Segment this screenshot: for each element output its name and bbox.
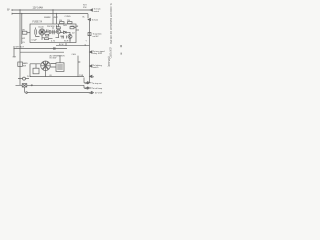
- svg-text:switch: switch: [93, 66, 99, 69]
- connector arrow A4: [90, 65, 93, 67]
- svg-text:R/W: R/W: [83, 7, 87, 9]
- wire mid bus C: [20, 51, 64, 53]
- wire right mid vertical: [78, 56, 80, 77]
- capacitor C2: [46, 30, 53, 34]
- svg-text:SW: SW: [23, 66, 26, 68]
- connector arrow A2: [88, 18, 91, 20]
- alternator circle A: [39, 29, 45, 35]
- svg-text:9. CIRCUIT DIAGRAM OF CB 2: 9. CIRCUIT DIAGRAM OF CB 250: [109, 4, 113, 45]
- wire mid bus long: [14, 48, 68, 50]
- wire top bus 2: [12, 13, 88, 15]
- page speck: [120, 45, 122, 47]
- connector pair B2: [84, 87, 92, 89]
- wire right vertical main: [89, 21, 91, 83]
- svg-text:150: 150: [59, 20, 62, 22]
- wire left vertical 2: [21, 14, 23, 44]
- comb marks: [47, 30, 67, 39]
- magneto circle B: [41, 61, 51, 71]
- svg-text:2SC458: 2SC458: [47, 26, 55, 28]
- svg-text:BL/W: BL/W: [59, 44, 64, 46]
- svg-text:W/Y BL/Y: W/Y BL/Y: [16, 47, 25, 49]
- connector pair B3: [88, 92, 94, 94]
- svg-text:FUSE 7A: FUSE 7A: [33, 21, 43, 24]
- svg-text:Y BR: Y BR: [79, 75, 84, 77]
- svg-text:To horn: To horn: [92, 20, 99, 22]
- wire bottom bus 1: [16, 84, 85, 86]
- regulator box: [56, 63, 64, 72]
- wire left short vertical: [13, 46, 15, 57]
- resistor R6: [70, 27, 74, 29]
- resistor R5: [45, 38, 49, 40]
- resistor R1: [60, 22, 65, 24]
- resistor R2: [68, 22, 73, 24]
- transistor Q1: [56, 29, 60, 33]
- connector unit to right: [76, 29, 79, 31]
- page speck 2: [121, 53, 122, 55]
- wire feed to unit box b: [56, 14, 58, 24]
- connector plug P1: [88, 33, 91, 36]
- wire labels left pair: [22, 38, 26, 44]
- svg-text:SCR: SCR: [64, 41, 69, 43]
- resistor R7: [46, 34, 49, 36]
- connector on mid bus: [53, 48, 56, 50]
- lamp L1: [22, 84, 27, 87]
- wire left vertical main: [19, 10, 21, 78]
- svg-text:BL: BL: [83, 16, 85, 18]
- svg-text:C6-40: C6-40: [38, 27, 44, 29]
- wire mid link: [56, 43, 90, 46]
- svg-text:1kΩ: 1kΩ: [63, 25, 67, 27]
- svg-text:B/W: B/W: [22, 38, 26, 40]
- connector arrow A3: [90, 51, 93, 53]
- svg-text:W: W: [92, 76, 94, 78]
- svg-text:W G: W G: [27, 76, 31, 78]
- wire top bus 1: [12, 9, 90, 11]
- resistor R4: [57, 27, 61, 29]
- junction dots: [19, 9, 57, 14]
- wire magneto right leads: [50, 64, 56, 68]
- svg-text:6V 17W: 6V 17W: [95, 93, 102, 95]
- svg-text:UNIT: UNIT: [53, 17, 58, 19]
- micro labels in unit: [32, 25, 76, 42]
- svg-text:SPARK: SPARK: [44, 16, 51, 19]
- label spark unit: [44, 16, 71, 19]
- svg-text:switch: switch: [94, 10, 100, 13]
- svg-text:0.5μF: 0.5μF: [32, 39, 38, 41]
- svg-text:To stop sw: To stop sw: [92, 82, 102, 85]
- svg-text:COND.: COND.: [65, 16, 72, 18]
- wire bottom bus 2: [27, 92, 89, 94]
- svg-text:5W: 5W: [22, 29, 25, 31]
- wire magneto left leads: [30, 64, 41, 77]
- svg-text:220: 220: [67, 20, 70, 22]
- svg-text:CHG: CHG: [72, 54, 77, 56]
- svg-text:12V 14AH: 12V 14AH: [33, 7, 44, 10]
- resistor RL: [22, 31, 27, 34]
- connector arrow A5: [90, 75, 93, 77]
- wire feed to unit box a: [52, 10, 54, 24]
- svg-text:relay 10W: relay 10W: [93, 53, 102, 55]
- svg-text:W/BL BR: W/BL BR: [71, 26, 79, 28]
- svg-text:6V 35W: 6V 35W: [50, 58, 57, 60]
- pickup coil box: [33, 68, 39, 74]
- bottom cluster: coil: [23, 77, 26, 80]
- wire right bottom vertical: [78, 77, 84, 83]
- connector on bus 1: [30, 84, 34, 86]
- svg-text:(125·160): (125·160): [107, 57, 110, 68]
- spark unit box: [30, 24, 76, 43]
- wire bottom of magneto: [30, 71, 78, 77]
- transistor Q2: [68, 35, 72, 39]
- diode D1: [61, 31, 69, 34]
- capacitor C1: [35, 28, 37, 37]
- connector pair B1: [84, 82, 92, 84]
- svg-text:To tail lamp: To tail lamp: [92, 87, 103, 90]
- connector arrow A1 (top bus): [90, 9, 93, 11]
- svg-text:coil 6V: coil 6V: [93, 36, 100, 38]
- label W/G above bus1 end: [83, 5, 87, 9]
- labels above resistors: [59, 20, 70, 22]
- switch S1: [18, 62, 23, 66]
- wire cluster links: [36, 24, 77, 43]
